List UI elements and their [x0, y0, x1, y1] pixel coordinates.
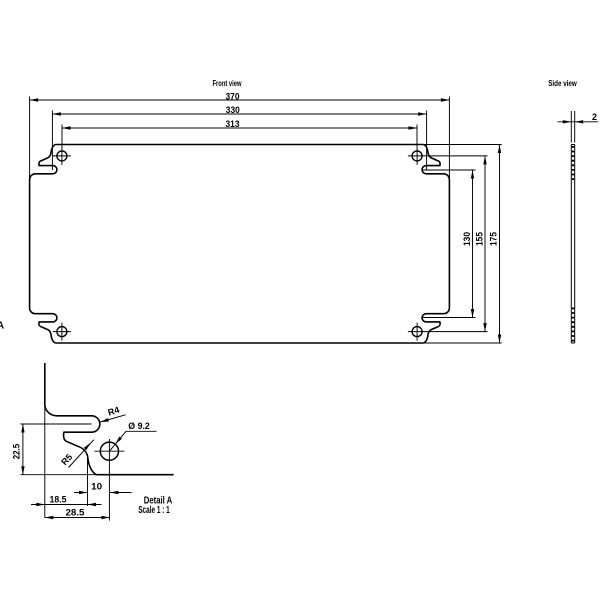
crosshair hole top-right vertical — [416, 147, 418, 165]
extension line 130 top — [422, 169, 476, 171]
extension line left edge up — [29, 97, 31, 180]
crosshair hole bottom-right vertical — [416, 323, 418, 341]
detail extension cap centre line — [20, 423, 91, 425]
plate top edge — [55, 144, 424, 146]
detail dimension line 22.5 — [22, 424, 24, 475]
detail corner notch — [45, 404, 100, 475]
dimension line 370 — [30, 99, 450, 101]
arrows dim 130 — [471, 170, 474, 179]
detail plate bottom edge — [96, 474, 173, 476]
corner notch bottom-right — [422, 308, 449, 343]
detail hole — [100, 442, 118, 460]
arrow leader R4 — [100, 418, 109, 423]
detail hole crosshair — [94, 439, 124, 521]
corner notch top-left — [30, 145, 57, 180]
side dim arrows — [563, 120, 583, 123]
svg-text:175: 175 — [489, 232, 499, 246]
arrows dim 175 — [498, 145, 501, 154]
extension top edge right — [424, 144, 502, 146]
corner notch bottom-left — [30, 308, 57, 343]
side extension lines — [571, 111, 574, 143]
svg-text:313: 313 — [226, 119, 240, 129]
detail plate left edge — [44, 363, 46, 404]
svg-text:R4: R4 — [107, 405, 121, 418]
svg-text:22.5: 22.5 — [12, 444, 22, 460]
arrows dim 10 — [79, 491, 88, 494]
side plate top cap — [571, 144, 574, 146]
svg-text:330: 330 — [226, 105, 240, 115]
side plate bottom cap — [571, 342, 574, 344]
svg-text:370: 370 — [226, 91, 240, 101]
leader R4 — [100, 415, 125, 422]
arrows dim 28.5 — [45, 516, 54, 519]
svg-text:18.5: 18.5 — [50, 495, 67, 505]
extension line 130 bottom — [422, 317, 476, 319]
extension line 330 left — [51, 111, 53, 171]
extension line 313 right — [416, 125, 418, 148]
arrows dim 22.5 — [21, 424, 24, 433]
dimension line 175 — [499, 145, 501, 344]
side plate right line — [574, 145, 576, 344]
detail extension plate edge down — [44, 404, 46, 517]
arrows dim 18.5 — [36, 503, 45, 506]
dimension line 155 — [484, 156, 486, 332]
leader R5 — [69, 440, 94, 468]
extension line 330 right — [426, 111, 428, 171]
extension bottom edge right — [424, 342, 502, 344]
detail extension bottom edge left — [20, 474, 96, 476]
hole bottom-left — [57, 327, 67, 337]
dimension line 313 — [62, 127, 417, 129]
detail dimension line 18.5 — [31, 504, 102, 506]
extension line 155 top — [408, 155, 488, 157]
side plate left line — [570, 145, 572, 344]
arrows dim 313 — [62, 126, 71, 129]
detail dimension line 28.5 — [45, 517, 110, 519]
svg-text:Scale 1 : 1: Scale 1 : 1 — [138, 505, 170, 516]
svg-text:10: 10 — [91, 482, 102, 492]
svg-text:A: A — [0, 321, 4, 332]
svg-text:Side view: Side view — [548, 79, 577, 88]
extension line 313 left — [61, 125, 63, 148]
svg-text:R5: R5 — [59, 452, 74, 467]
side hidden dashes bottom — [572, 308, 574, 343]
arrows dim 330 — [52, 112, 61, 115]
hole top-right — [412, 151, 422, 161]
detail extension hump line — [87, 454, 89, 506]
arrow leader diameter — [114, 437, 122, 446]
plate bottom edge — [55, 342, 424, 344]
crosshair hole top-left — [53, 147, 71, 165]
arrows dim 155 — [483, 156, 486, 165]
hole bottom-right — [412, 327, 422, 337]
extension line 155 bottom — [408, 331, 488, 333]
leader diameter 9.2 — [109, 431, 156, 451]
arrow leader R5 — [84, 441, 92, 450]
detail dimension line 10 — [74, 492, 132, 494]
svg-text:Ø 9.2: Ø 9.2 — [128, 421, 150, 431]
dimension line 130 — [472, 170, 474, 318]
arrows dim 370 — [30, 98, 38, 101]
dimension line 330 — [52, 113, 426, 115]
hole top-left — [57, 151, 67, 161]
plate right edge — [448, 180, 450, 309]
svg-text:Front view: Front view — [213, 79, 243, 88]
svg-text:28.5: 28.5 — [66, 508, 85, 518]
side hidden dashes top — [572, 146, 574, 183]
corner notch top-right — [422, 145, 449, 180]
extension line right edge up — [448, 97, 450, 180]
plate left edge — [29, 180, 31, 309]
crosshair hole bottom-left — [53, 323, 71, 341]
svg-text:155: 155 — [475, 232, 485, 246]
side dimension line 2 — [558, 121, 599, 123]
svg-text:2: 2 — [592, 112, 597, 122]
svg-text:130: 130 — [462, 232, 472, 246]
